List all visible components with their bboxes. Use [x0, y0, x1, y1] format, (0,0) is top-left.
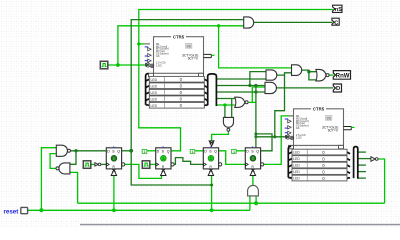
wire LED2 row2 to inverter: [358, 158, 371, 160]
wire NOR2 input2 loop: [309, 72, 317, 80]
svg-text:reset: reset: [4, 208, 19, 215]
wire FF4 reset triangle from dome gate: [252, 176, 254, 186]
node self loop junction: [254, 132, 257, 135]
node row2 junction: [248, 84, 251, 87]
node clock line junction: [254, 135, 257, 138]
nor gate NOR2 RnW: [316, 69, 326, 81]
wire LED1 row4 to NOR1 input1: [216, 98, 234, 100]
junction dots bright: [39, 24, 258, 212]
svg-text:1: 1: [144, 150, 146, 154]
wire NAND1 output drop to NAND2 input1: [70, 151, 76, 165]
clock source CLK3: [142, 161, 150, 169]
counter U1 CTR5: [145, 34, 215, 76]
nor gate NOR1: [235, 97, 245, 107]
wire tag3 to FF3.D: [194, 150, 203, 152]
flip-flop FF2 state circle: [160, 155, 166, 161]
wire LED1 row4 drop to vertical NAND input1: [231, 99, 233, 118]
node row2 junction b: [254, 84, 257, 87]
wire FF2.Q up to nS riser: [139, 44, 181, 151]
inverter NOT2 after LED2: [371, 157, 375, 162]
wire LED1 row2 riser to AND1 input1: [250, 72, 266, 86]
node rail1 dome junction: [254, 201, 258, 205]
wire FF3 reset triangle to rail2: [211, 176, 213, 211]
wire NOT1 output to FF1 clock: [101, 163, 106, 165]
wire clock2 to inverter: [91, 163, 95, 165]
wire LED2 row4 stub: [358, 171, 366, 173]
clock source CLK1: [100, 61, 108, 69]
wire NOR2 output to RnW tag: [329, 74, 334, 76]
wire LED1 row1 to AND1 input2: [216, 78, 266, 80]
svg-text:RnW: RnW: [336, 73, 350, 79]
and gate AND2: [265, 82, 276, 93]
wire FF4 self loop Q to S: [256, 134, 272, 151]
net tag small 3: [190, 149, 195, 153]
junction dots dark: [74, 70, 310, 187]
wire LED2 row5 stub: [358, 177, 366, 179]
wire LED2 inverter output loop to rail1: [378, 159, 385, 203]
wire AND1 output to AND3 input2: [277, 73, 292, 75]
wire NAND2 output loop to NAND1 input2: [50, 154, 56, 169]
wire FF1.nQ loop to FF2 reset triangle: [125, 164, 162, 178]
wire LED1 row3 to AND2 input2: [216, 91, 265, 93]
nand gate NAND1: [56, 145, 67, 156]
wire LED1 row5 drop to vertical NAND input2: [224, 105, 226, 118]
wire NAND1 output to FF1.D: [71, 150, 107, 152]
flip-flop FF1 state circle: [111, 155, 117, 161]
wire LED1 row2 to AND2 input1: [216, 85, 265, 87]
wire AND2 output to D tag: [277, 87, 334, 89]
wire counter2 clock line: [256, 136, 289, 138]
wire branch at y110.7: [275, 75, 285, 137]
node nS junction: [137, 42, 140, 45]
wire LED2 row1 stub: [358, 151, 366, 153]
wire tag4 to FF4.D: [236, 150, 246, 152]
node AND3 output junction: [307, 70, 310, 73]
wire LED2 row3 stub: [358, 164, 366, 166]
node row3 junction: [254, 90, 257, 93]
wire clock3 to FF2 clock: [150, 163, 156, 165]
wire rail2 to rail1 link: [249, 196, 251, 210]
and gate ANDC top: [244, 17, 254, 28]
output tag nS: [333, 5, 342, 12]
wire FF4.nQ to counter2 pin1: [264, 116, 289, 164]
LED array 1: [146, 74, 217, 109]
node rail2 FF1 junction: [112, 208, 116, 212]
node y185 junction: [210, 184, 213, 187]
pin line counter1 M1: [145, 43, 150, 45]
wire rows drop to FF4 set and counter2 clock: [255, 86, 257, 148]
wire FF1 reset triangle to rail2: [113, 176, 115, 211]
pin line counter2 M1: [289, 115, 295, 117]
node FF1.Q junction: [129, 149, 133, 153]
set triangle above FF3: [209, 141, 214, 146]
node rail2 FF3 junction: [210, 208, 214, 212]
wire LED1 row5 to NOR1 input: [216, 104, 234, 106]
wire AND C output to C tag: [253, 21, 332, 23]
wire clock net riser to AND C input: [118, 26, 244, 65]
svg-text:1: 1: [192, 150, 194, 154]
flip-flop FF3: [203, 146, 222, 175]
and gate AND3: [292, 65, 302, 76]
wire rail1: [78, 202, 385, 204]
LED array 2: [288, 146, 358, 181]
node counter2 clock junction: [273, 135, 276, 138]
wire clock net drop to AND3 input: [219, 26, 292, 68]
node clock net junction: [116, 63, 120, 67]
svg-text:1: 1: [233, 150, 235, 154]
net tag small 4: [232, 149, 237, 153]
wire NAND2 input2 from rail1: [70, 172, 78, 203]
wire FF1.Q long vertical to AND C input1: [131, 20, 243, 185]
wire tag2 to FF2.D: [146, 150, 156, 152]
svg-text:D: D: [336, 86, 340, 92]
clock source CLK2: [83, 161, 91, 169]
flip-flop FF3 state circle: [208, 155, 214, 161]
output tag D: [333, 84, 341, 92]
and gate dome under FF4: [248, 185, 259, 195]
input reset connector: [21, 207, 28, 213]
output tag C: [332, 18, 339, 25]
flip-flop FF1: [106, 146, 125, 175]
and gate AND1: [266, 70, 277, 80]
flip-flop FF2: [156, 146, 175, 175]
wire dome gate input2 from rail1: [255, 196, 257, 203]
node reset junction: [39, 208, 43, 212]
wire FF3.Q to FF4 clock: [219, 151, 246, 165]
wire reset rail2: [28, 209, 250, 211]
node row5 junction: [223, 103, 226, 106]
wire FF1.Q stub: [122, 150, 132, 152]
wire counter1 pin1 stub: [139, 43, 145, 45]
inverter NOT1: [95, 163, 98, 166]
wire NOR1 output loop to AND2: [249, 101, 256, 103]
wire AND3 output to NOR2 input1: [302, 70, 316, 72]
wire nS net vertical/horizontal to tag: [139, 10, 333, 44]
panel edge bottom: [80, 224, 400, 226]
flip-flop FF4 state circle: [250, 155, 256, 161]
wire reset riser to NAND1 input1: [41, 148, 56, 211]
node clock top junction: [217, 24, 220, 27]
wire vertical NAND output to FF3 set triangle: [212, 131, 229, 141]
flip-flop FF4: [245, 146, 263, 175]
nand gate NAND2 mirrored: [59, 163, 70, 174]
counter U2 CTR5: [285, 106, 355, 148]
nand gate NAND3 vertical: [223, 117, 233, 127]
svg-text:C: C: [334, 20, 338, 26]
net tag small 2: [142, 149, 147, 153]
node NAND1 output junction: [74, 149, 77, 152]
wire clock1 output: [108, 64, 149, 66]
output tag RnW: [333, 71, 350, 80]
wire FF2.nQ zigzag to FF3 clock: [174, 158, 203, 165]
svg-text:nS: nS: [335, 7, 342, 13]
